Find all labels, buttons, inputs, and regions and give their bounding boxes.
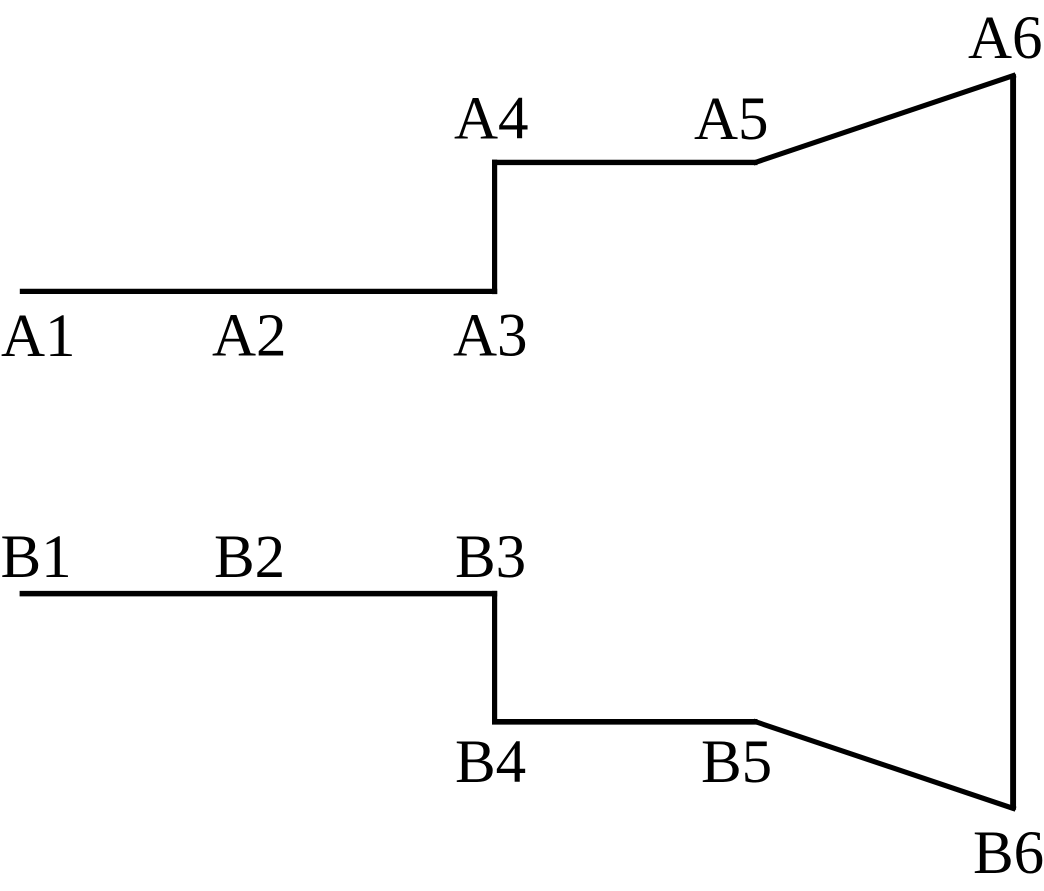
- wire A1-A3: [20, 289, 497, 294]
- svg-text:B1: B1: [1, 524, 72, 591]
- wire B3-B1: [20, 591, 498, 597]
- wire A4-A5: [492, 160, 758, 165]
- svg-text:A5: A5: [694, 86, 769, 153]
- wire B4-B3: [492, 591, 497, 725]
- svg-text:B2: B2: [214, 524, 285, 591]
- wire A3-A4: [492, 160, 497, 295]
- svg-text:A4: A4: [454, 86, 529, 153]
- wire B5-B4: [492, 719, 758, 725]
- svg-text:B5: B5: [701, 729, 772, 796]
- svg-text:B4: B4: [455, 729, 526, 796]
- svg-text:B6: B6: [973, 820, 1044, 887]
- svg-text:B3: B3: [455, 524, 526, 591]
- svg-text:A2: A2: [212, 303, 287, 370]
- svg-text:A6: A6: [968, 5, 1043, 72]
- wire A6-B6: [1010, 74, 1016, 810]
- wire A5-A6: [756, 76, 1013, 163]
- svg-text:A3: A3: [453, 303, 528, 370]
- svg-text:A1: A1: [1, 303, 76, 370]
- wire B6-B5: [756, 722, 1013, 809]
